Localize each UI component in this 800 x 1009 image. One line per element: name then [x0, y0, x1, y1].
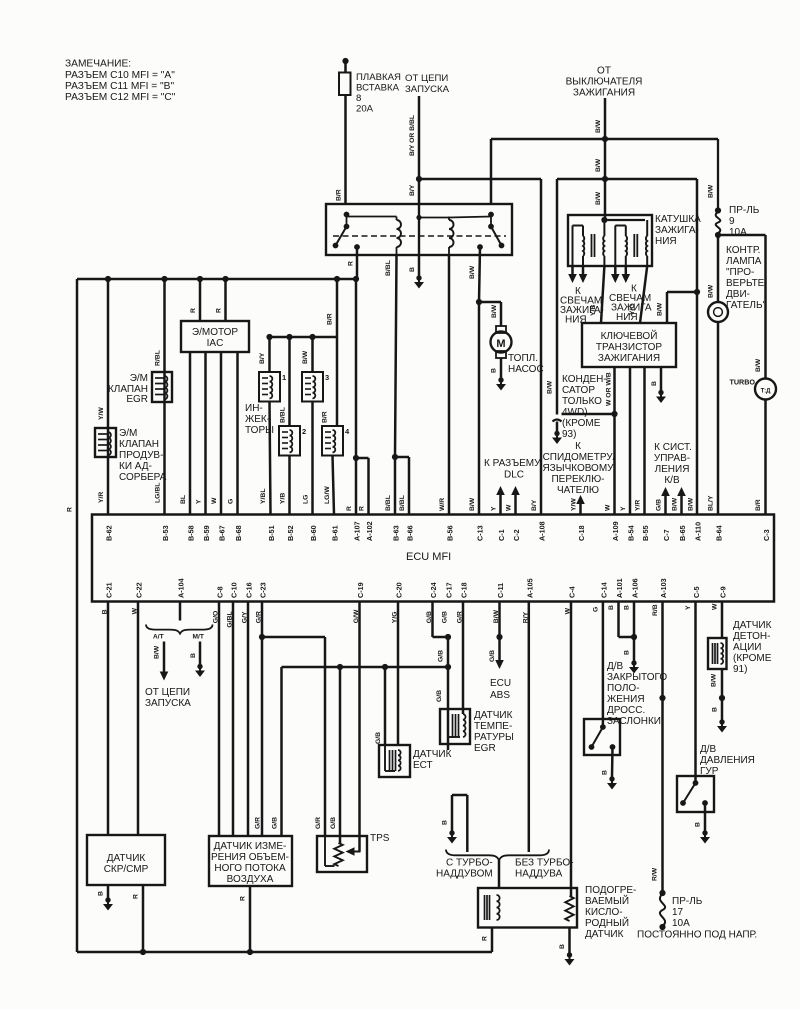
svg-text:B/R: B/R: [336, 189, 343, 201]
svg-text:B: B: [608, 605, 615, 610]
svg-text:G/B: G/B: [442, 611, 449, 623]
svg-text:B/W: B/W: [469, 497, 476, 511]
svg-text:Y/R: Y/R: [635, 500, 642, 511]
svg-text:ГУР: ГУР: [700, 766, 719, 777]
svg-text:Y/W: Y/W: [571, 498, 578, 511]
svg-text:W/R: W/R: [439, 498, 446, 511]
svg-text:R: R: [240, 896, 247, 901]
svg-text:B-55: B-55: [641, 525, 650, 541]
svg-text:G/B: G/B: [330, 817, 337, 829]
svg-text:А/Т: А/Т: [153, 634, 164, 641]
svg-text:Y/B: Y/B: [590, 305, 597, 316]
svg-text:ЗАКРЫТОГО: ЗАКРЫТОГО: [607, 672, 667, 683]
svg-text:G: G: [593, 607, 600, 612]
svg-text:10А: 10А: [672, 918, 690, 929]
svg-text:ТОПЛ.: ТОПЛ.: [508, 353, 538, 364]
svg-text:B: B: [695, 822, 702, 827]
svg-text:G/B: G/B: [436, 690, 443, 702]
svg-text:КЛАПАН: КЛАПАН: [119, 439, 159, 450]
svg-text:ABS: ABS: [490, 690, 510, 701]
svg-text:B/Y: B/Y: [531, 499, 538, 511]
svg-text:LG: LG: [303, 495, 310, 504]
svg-text:ECU MFI: ECU MFI: [406, 551, 451, 563]
svg-text:IAC: IAC: [207, 338, 224, 349]
svg-text:C-4: C-4: [568, 586, 577, 598]
svg-text:B/W: B/W: [302, 350, 309, 364]
svg-text:C-1: C-1: [497, 529, 506, 541]
svg-text:ЯЗЫЧКОВОМУ: ЯЗЫЧКОВОМУ: [542, 463, 614, 474]
svg-text:B-52: B-52: [286, 525, 295, 541]
svg-text:ПЛАВКАЯ: ПЛАВКАЯ: [356, 72, 401, 83]
svg-text:G/B: G/B: [489, 650, 496, 662]
svg-text:W: W: [211, 497, 218, 504]
svg-text:УПРАВ-: УПРАВ-: [654, 453, 690, 464]
svg-text:ВОЗДУХА: ВОЗДУХА: [227, 874, 274, 885]
svg-text:A-108: A-108: [538, 521, 547, 541]
svg-text:W: W: [506, 504, 513, 511]
svg-text:R: R: [482, 936, 489, 941]
svg-text:A-104: A-104: [177, 578, 186, 598]
svg-text:B-53: B-53: [161, 525, 170, 541]
svg-text:C-16: C-16: [245, 582, 254, 598]
svg-text:B-61: B-61: [331, 525, 340, 541]
svg-text:М/Т: М/Т: [193, 634, 204, 641]
svg-text:B/BL: B/BL: [280, 407, 287, 423]
svg-text:ДРОСС.: ДРОСС.: [607, 705, 645, 716]
svg-text:B-64: B-64: [715, 525, 724, 541]
svg-text:ЗАЖИГАНИЯ: ЗАЖИГАНИЯ: [598, 353, 660, 364]
svg-text:B/R: B/R: [322, 411, 329, 423]
svg-text:C-21: C-21: [105, 582, 114, 598]
svg-text:2: 2: [302, 427, 306, 436]
svg-text:(КРОМЕ: (КРОМЕ: [562, 418, 601, 429]
svg-text:EGR: EGR: [126, 394, 148, 405]
svg-text:B/W: B/W: [491, 304, 498, 318]
svg-text:B/W: B/W: [595, 119, 602, 133]
svg-text:R: R: [190, 308, 197, 313]
svg-text:КАТУШКА: КАТУШКА: [655, 214, 701, 225]
svg-text:ДАТЧИК: ДАТЧИК: [585, 929, 624, 940]
svg-text:EGR: EGR: [474, 743, 496, 754]
svg-text:САТОР: САТОР: [562, 385, 595, 396]
svg-text:С ТУРБО-: С ТУРБО-: [446, 858, 493, 869]
svg-text:B-60: B-60: [309, 525, 318, 541]
svg-text:ДАТЧИК: ДАТЧИК: [413, 749, 452, 760]
svg-text:ДВИ-: ДВИ-: [726, 289, 750, 300]
svg-text:B/W: B/W: [595, 191, 602, 205]
svg-text:B/W: B/W: [711, 673, 718, 687]
svg-text:ГАТЕЛЬ": ГАТЕЛЬ": [726, 300, 767, 311]
svg-text:93): 93): [562, 429, 576, 440]
svg-text:B-54: B-54: [627, 525, 636, 541]
svg-text:C-5: C-5: [692, 586, 701, 598]
svg-text:4WD): 4WD): [562, 407, 588, 418]
svg-text:B-67: B-67: [218, 525, 227, 541]
svg-text:G/R: G/R: [315, 817, 322, 829]
svg-text:ОТ ЦЕПИ: ОТ ЦЕПИ: [145, 687, 190, 698]
svg-text:B/Y OR B/BL: B/Y OR B/BL: [409, 115, 416, 156]
svg-text:ДЕТОН-: ДЕТОН-: [733, 631, 770, 642]
svg-text:B/BL: B/BL: [385, 495, 392, 511]
svg-text:КЛЮЧЕВОЙ: КЛЮЧЕВОЙ: [601, 329, 658, 342]
svg-text:C-18: C-18: [460, 582, 469, 598]
svg-text:BL/Y: BL/Y: [708, 495, 715, 511]
svg-text:КОНДЕН-: КОНДЕН-: [562, 374, 607, 385]
svg-text:R/BL: R/BL: [155, 350, 162, 366]
svg-text:B/BL: B/BL: [385, 260, 392, 276]
svg-text:B/Y: B/Y: [259, 352, 266, 364]
svg-text:НОГО ПОТОКА: НОГО ПОТОКА: [214, 863, 286, 874]
svg-text:К РАЗЪЕМУ: К РАЗЪЕМУ: [484, 458, 541, 469]
svg-text:8: 8: [356, 93, 361, 104]
svg-text:ЗАЖИГАНИЯ: ЗАЖИГАНИЯ: [573, 88, 635, 99]
svg-text:B: B: [190, 653, 197, 658]
svg-text:B/W: B/W: [547, 380, 554, 394]
svg-text:Э/МОТОР: Э/МОТОР: [192, 327, 239, 338]
svg-text:B: B: [651, 381, 658, 386]
svg-text:Д/В: Д/В: [607, 661, 624, 672]
svg-text:B-68: B-68: [234, 525, 243, 541]
svg-text:A-110: A-110: [694, 522, 703, 541]
svg-text:C-9: C-9: [719, 586, 728, 598]
svg-text:B/W: B/W: [469, 265, 476, 279]
svg-text:РАЗЪЕМ С11 MFI = "В": РАЗЪЕМ С11 MFI = "В": [65, 81, 174, 92]
svg-text:M: M: [496, 338, 505, 350]
svg-text:A-101: A-101: [615, 578, 624, 598]
svg-text:B: B: [442, 820, 449, 825]
svg-text:TURBO: TURBO: [729, 378, 755, 387]
svg-text:ОТ: ОТ: [597, 66, 611, 77]
svg-text:ТОЛЬКО: ТОЛЬКО: [562, 396, 602, 407]
svg-text:C-10: C-10: [230, 582, 239, 598]
svg-text:Y/W: Y/W: [98, 407, 105, 420]
svg-text:Y: Y: [685, 605, 692, 610]
svg-text:B-51: B-51: [267, 525, 276, 541]
svg-text:C-24: C-24: [429, 582, 438, 598]
svg-text:B/W: B/W: [657, 302, 664, 316]
svg-text:КИ АД-: КИ АД-: [119, 461, 152, 472]
svg-text:A-103: A-103: [659, 578, 668, 598]
svg-text:B-66: B-66: [406, 525, 415, 541]
svg-text:9: 9: [729, 216, 735, 227]
svg-text:B: B: [624, 605, 631, 610]
svg-text:B-63: B-63: [392, 525, 401, 541]
svg-text:ВЕРЬТЕ: ВЕРЬТЕ: [726, 278, 765, 289]
svg-text:B: B: [409, 267, 416, 272]
svg-text:R: R: [348, 261, 355, 266]
svg-text:ECU: ECU: [490, 678, 511, 689]
svg-text:ДАВЛЕНИЯ: ДАВЛЕНИЯ: [700, 755, 755, 766]
svg-text:ПОДОГРЕ-: ПОДОГРЕ-: [585, 885, 636, 896]
svg-text:DLC: DLC: [504, 470, 524, 481]
svg-text:A-109: A-109: [611, 521, 620, 541]
svg-text:3: 3: [325, 373, 329, 382]
svg-text:C-18: C-18: [577, 525, 586, 541]
svg-text:(КРОМЕ: (КРОМЕ: [733, 653, 772, 664]
svg-text:B/W: B/W: [708, 284, 715, 298]
svg-text:Д/В: Д/В: [700, 744, 717, 755]
svg-text:C-11: C-11: [496, 583, 505, 598]
svg-text:B-56: B-56: [446, 525, 455, 541]
svg-text:ПР-ЛЬ: ПР-ЛЬ: [729, 205, 760, 216]
svg-text:G/R: G/R: [255, 817, 262, 829]
svg-text:B: B: [98, 891, 105, 896]
svg-text:ДАТЧИК: ДАТЧИК: [733, 620, 772, 631]
svg-text:R: R: [359, 506, 366, 511]
svg-text:B/W: B/W: [755, 358, 762, 372]
svg-text:ПР-ЛЬ: ПР-ЛЬ: [672, 896, 703, 907]
svg-text:СКР/СМР: СКР/СМР: [104, 864, 149, 875]
svg-text:R: R: [346, 506, 353, 511]
svg-text:Y/G: Y/G: [629, 303, 636, 315]
svg-text:17: 17: [672, 907, 684, 918]
svg-text:ЕСТ: ЕСТ: [413, 760, 433, 771]
svg-text:ВАЕМЫЙ: ВАЕМЫЙ: [585, 894, 629, 907]
svg-text:C-7: C-7: [662, 529, 671, 541]
svg-text:C-20: C-20: [395, 582, 404, 598]
svg-text:BL: BL: [180, 495, 187, 504]
svg-text:B/Y: B/Y: [409, 184, 416, 196]
svg-text:ЧАТЕЛЮ: ЧАТЕЛЮ: [557, 485, 599, 496]
svg-text:C-3: C-3: [762, 529, 771, 541]
svg-text:C-23: C-23: [259, 582, 268, 598]
svg-text:АЦИИ: АЦИИ: [733, 642, 761, 653]
svg-text:B/W: B/W: [672, 497, 679, 511]
svg-text:B: B: [712, 707, 719, 712]
svg-text:B: B: [602, 770, 609, 775]
svg-text:LG/W: LG/W: [324, 486, 331, 504]
svg-text:91): 91): [733, 664, 747, 675]
svg-text:КИСЛО-: КИСЛО-: [585, 907, 623, 918]
svg-text:ЛЕНИЯ: ЛЕНИЯ: [655, 464, 690, 475]
svg-text:R: R: [133, 894, 140, 899]
svg-text:НАДДУВА: НАДДУВА: [515, 869, 563, 880]
svg-text:ТЕМПЕ-: ТЕМПЕ-: [474, 721, 512, 732]
svg-text:C-17: C-17: [445, 582, 454, 598]
svg-text:Y/R: Y/R: [98, 492, 105, 503]
svg-text:R: R: [216, 308, 223, 313]
svg-text:B-58: B-58: [187, 525, 196, 541]
svg-text:C-19: C-19: [356, 582, 365, 598]
svg-text:РАЗЪЕМ С12 MFI = "С": РАЗЪЕМ С12 MFI = "С": [65, 92, 176, 103]
svg-text:LG/BL: LG/BL: [155, 483, 162, 503]
svg-text:B: B: [624, 650, 631, 655]
svg-text:C-8: C-8: [216, 586, 225, 598]
svg-text:TPS: TPS: [370, 833, 390, 844]
svg-text:НИЯ: НИЯ: [655, 236, 677, 247]
svg-text:Y/BL: Y/BL: [260, 489, 267, 504]
svg-text:ПОСТОЯННО ПОД НАПР.: ПОСТОЯННО ПОД НАПР.: [637, 930, 757, 941]
svg-text:ЗАПУСКА: ЗАПУСКА: [405, 84, 450, 95]
svg-text:БЕЗ ТУРБО-: БЕЗ ТУРБО-: [515, 858, 574, 869]
svg-text:ПРОДУВ-: ПРОДУВ-: [119, 450, 163, 461]
svg-text:РЕНИЯ ОБЪЕМ-: РЕНИЯ ОБЪЕМ-: [211, 852, 289, 863]
svg-text:R/W: R/W: [652, 867, 659, 881]
svg-text:B/W: B/W: [688, 497, 695, 511]
svg-text:B/BL: B/BL: [399, 495, 406, 511]
svg-text:B/W: B/W: [154, 645, 161, 659]
svg-text:ТРАНЗИСТОР: ТРАНЗИСТОР: [596, 342, 663, 353]
svg-text:A-107: A-107: [353, 521, 362, 541]
svg-text:ОТ ЦЕПИ: ОТ ЦЕПИ: [405, 73, 448, 84]
svg-text:G/B: G/B: [272, 817, 279, 829]
svg-text:К/В: К/В: [664, 475, 680, 486]
svg-text:B-62: B-62: [105, 525, 114, 541]
svg-text:ЛАМПА: ЛАМПА: [726, 256, 762, 267]
svg-text:B/R: B/R: [327, 313, 334, 325]
svg-text:НАДДУВОМ: НАДДУВОМ: [436, 869, 493, 880]
svg-text:Y: Y: [620, 506, 627, 511]
svg-text:B/R: B/R: [755, 499, 762, 511]
svg-text:ДАТЧИК: ДАТЧИК: [474, 710, 513, 721]
svg-text:A-102: A-102: [365, 521, 374, 541]
svg-text:W: W: [712, 603, 719, 610]
svg-text:ЗАМЕЧАНИЕ:: ЗАМЕЧАНИЕ:: [65, 59, 131, 70]
svg-text:РАЗЪЕМ С10 MFI = "А": РАЗЪЕМ С10 MFI = "А": [65, 70, 175, 81]
svg-text:РОДНЫЙ: РОДНЫЙ: [585, 916, 629, 929]
svg-text:C-2: C-2: [512, 529, 521, 541]
svg-text:ЗАЖИГА-: ЗАЖИГА-: [655, 225, 699, 236]
svg-text:B: B: [491, 368, 498, 373]
svg-text:ДАТЧИК: ДАТЧИК: [107, 853, 146, 864]
svg-text:B: B: [559, 944, 566, 949]
svg-text:ИН-: ИН-: [245, 403, 263, 414]
svg-text:Y/B: Y/B: [280, 493, 287, 504]
svg-text:10А: 10А: [729, 227, 747, 238]
svg-text:К: К: [575, 441, 581, 452]
svg-text:ЖЕНИЯ: ЖЕНИЯ: [607, 694, 645, 705]
svg-text:Y: Y: [196, 499, 203, 504]
svg-text:ПЕРЕКЛЮ-: ПЕРЕКЛЮ-: [551, 474, 604, 485]
svg-text:"ПРО-: "ПРО-: [726, 267, 754, 278]
svg-text:ПОЛО-: ПОЛО-: [607, 683, 640, 694]
svg-text:C-14: C-14: [600, 582, 609, 598]
svg-text:R/B: R/B: [652, 604, 659, 616]
svg-text:B/W: B/W: [595, 158, 602, 172]
svg-text:B/W: B/W: [708, 184, 715, 198]
svg-text:C-13: C-13: [476, 525, 485, 541]
svg-text:Т:Д: Т:Д: [761, 389, 772, 395]
svg-text:НАСОС: НАСОС: [508, 364, 544, 375]
svg-text:G/B: G/B: [656, 499, 663, 511]
svg-text:C-22: C-22: [135, 582, 144, 598]
svg-text:Э/М: Э/М: [119, 428, 137, 439]
svg-text:ЖЕК-: ЖЕК-: [245, 414, 270, 425]
svg-text:A-105: A-105: [525, 578, 534, 598]
svg-text:К СИСТ.: К СИСТ.: [654, 442, 692, 453]
svg-text:КОНТР.: КОНТР.: [726, 245, 760, 256]
svg-text:1: 1: [282, 373, 286, 382]
svg-text:СПИДОМЕТРУ/: СПИДОМЕТРУ/: [543, 452, 616, 463]
svg-text:G/B: G/B: [375, 732, 382, 744]
svg-text:РАТУРЫ: РАТУРЫ: [474, 732, 514, 743]
svg-text:ВСТАВКА: ВСТАВКА: [356, 83, 400, 94]
svg-text:G: G: [228, 499, 235, 504]
svg-text:ЗАСЛОНКИ: ЗАСЛОНКИ: [607, 716, 661, 727]
svg-text:W: W: [605, 504, 612, 511]
svg-text:20А: 20А: [356, 104, 374, 115]
svg-text:ДАТЧИК ИЗМЕ-: ДАТЧИК ИЗМЕ-: [214, 841, 287, 852]
svg-text:G/B: G/B: [438, 650, 445, 662]
svg-text:R: R: [67, 507, 74, 512]
svg-text:ЗАПУСКА: ЗАПУСКА: [145, 698, 191, 709]
svg-text:Э/М: Э/М: [130, 373, 148, 384]
svg-text:СОРБЕРА: СОРБЕРА: [119, 472, 167, 483]
svg-text:B-59: B-59: [202, 525, 211, 541]
svg-text:B-65: B-65: [678, 525, 687, 541]
svg-text:A-106: A-106: [631, 578, 640, 598]
svg-text:Y: Y: [491, 506, 498, 511]
svg-text:ВЫКЛЮЧАТЕЛЯ: ВЫКЛЮЧАТЕЛЯ: [566, 77, 643, 88]
